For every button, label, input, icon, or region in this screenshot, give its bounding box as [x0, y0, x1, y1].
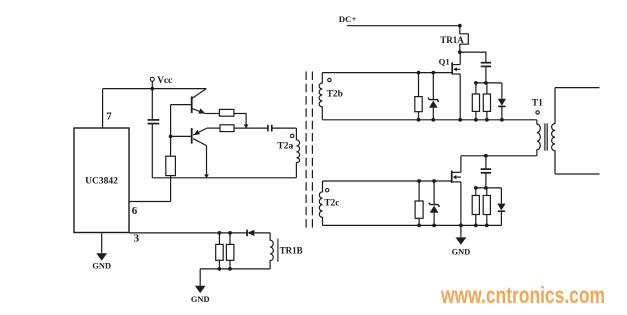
pin 7 label — [106, 111, 112, 123]
wire Vcc horizontal rail — [103, 88, 207, 90]
junction R11 bottom — [228, 267, 232, 271]
wire T2b top to Q1 gate — [322, 72, 451, 74]
resistor R7 gate resistor — [415, 181, 423, 225]
capacitor C4 snubber — [481, 156, 491, 188]
transformer T1 primary winding — [537, 120, 540, 156]
wire R2 to junction — [234, 114, 246, 125]
svg-text:T2b: T2b — [327, 89, 343, 99]
node T2a phase dot — [291, 134, 294, 137]
ground below UC3842 — [92, 233, 111, 270]
wire base feed vertical lower — [170, 176, 172, 202]
junction snubber2 rail left — [474, 186, 478, 190]
wire DC+ horizontal — [347, 25, 460, 27]
svg-text:GND: GND — [191, 295, 210, 304]
junction arrow at lower rail — [204, 174, 209, 178]
transistor Q1 MOSFET — [452, 62, 460, 74]
resistor R9 snubber — [483, 188, 490, 226]
wire source bus upper — [322, 119, 537, 121]
node T1 phase dot — [536, 111, 539, 114]
junction arrow at R2/R3 node — [244, 124, 249, 128]
junction T2b gate wire at D2 — [431, 71, 435, 75]
transformer T1 secondary winding — [552, 88, 555, 174]
transformer TR1B current sense secondary — [270, 233, 303, 269]
wire Q4 drain to T1 bottom — [461, 155, 537, 157]
svg-text:GND: GND — [92, 262, 111, 271]
capacitor C3 snubber — [481, 63, 491, 83]
junction lower bus snubber R9 — [485, 224, 489, 228]
wire Q4 source — [460, 182, 462, 226]
wire Q2 emitter to R2 — [205, 113, 219, 115]
junction Q1 drain node — [458, 50, 462, 54]
junction Vcc node — [150, 87, 154, 91]
transformer T2 core dashed line left — [305, 72, 307, 229]
wire T2c top to Q4 gate — [323, 180, 452, 182]
junction T2c gate wire at R7 — [417, 179, 421, 183]
wire Q3 collector drop — [206, 146, 208, 175]
zener diode D2 gate clamp — [428, 73, 439, 120]
junction bus D2 — [431, 118, 435, 122]
diode D5 snubber — [497, 188, 505, 226]
diode D1 sense rectifier — [247, 230, 270, 237]
junction snubber rail left — [474, 81, 478, 85]
svg-text:TR1B: TR1B — [280, 245, 303, 255]
transformer T2 core dashed line right — [311, 72, 313, 229]
svg-text:DC+: DC+ — [339, 14, 357, 24]
wire snubber top — [460, 52, 486, 62]
svg-text:www.cntronics.com: www.cntronics.com — [440, 282, 605, 308]
junction T2c gate wire at D4 — [432, 179, 436, 183]
junction PNP base node — [169, 135, 173, 139]
resistor R3 lower base resistor — [220, 125, 234, 132]
resistor R2 upper base resistor — [219, 109, 234, 116]
capacitor C1 Vcc decoupling — [148, 89, 160, 178]
resistor R10 sense — [216, 233, 224, 269]
junction bus R4 — [417, 118, 421, 122]
label T1 — [532, 98, 543, 108]
junction bus snubber D3 — [500, 118, 504, 122]
wire base feed vertical upper — [170, 105, 172, 157]
transistor Q4 MOSFET — [452, 171, 461, 183]
wire snubber rail — [476, 82, 502, 84]
svg-text:Q1: Q1 — [439, 57, 450, 67]
node T2c phase dot — [326, 189, 329, 192]
junction Q4 drain cap tap — [484, 154, 488, 158]
resistor R4 gate resistor — [415, 73, 422, 120]
svg-text:T2a: T2a — [277, 141, 293, 151]
node T2b phase dot — [328, 78, 331, 81]
svg-text:Vcc: Vcc — [157, 76, 172, 86]
wire snubber2 rail — [476, 187, 502, 189]
label Q1 — [439, 57, 450, 67]
wire Q1 drain — [459, 52, 461, 65]
capacitor C2 coupling — [268, 125, 297, 132]
ground at TR1B return — [191, 269, 210, 304]
junction R10 bottom — [218, 267, 222, 271]
svg-text:7: 7 — [106, 111, 112, 123]
junction snubber2 rail cap — [484, 186, 488, 190]
wire Q4 drain — [460, 156, 462, 173]
wire pin 6 output — [129, 201, 171, 203]
junction bus Q1 source — [458, 118, 462, 122]
transformer TR1A current sense primary — [440, 26, 468, 52]
label T2a — [277, 141, 293, 151]
resistor R6 snubber — [483, 83, 490, 120]
wire lower rail to T2a bottom — [152, 177, 296, 179]
transformer T2a primary winding — [296, 128, 299, 178]
resistor R5 snubber — [472, 83, 479, 120]
node Vcc terminal — [150, 76, 172, 89]
label T2c — [324, 199, 339, 209]
svg-text:6: 6 — [132, 205, 138, 217]
wire pin 7 vertical — [102, 89, 104, 129]
resistor R8 snubber — [472, 188, 479, 226]
node DC+ supply — [339, 14, 357, 24]
svg-text:T1: T1 — [532, 98, 543, 108]
diode D3 snubber — [498, 83, 506, 120]
junction R10 top — [218, 231, 222, 235]
junction bus snubber R6 — [485, 118, 489, 122]
pin 6 label — [132, 205, 138, 217]
transformer T1 core — [545, 123, 547, 150]
junction bus snubber R5 — [474, 118, 478, 122]
junction T2b gate wire at R4 — [417, 71, 421, 75]
wire TR1B bottom return — [200, 268, 270, 270]
resistor R1 base pulldown — [166, 156, 176, 175]
junction R11 top — [228, 231, 232, 235]
wire R3 to coupling capacitor — [234, 127, 268, 129]
svg-text:TR1A: TR1A — [440, 35, 464, 45]
wire Q3 emitter to R3 — [207, 127, 220, 129]
wire source bus lower — [323, 224, 502, 226]
zener diode D4 gate clamp — [429, 181, 440, 225]
wire secondary top stub — [555, 87, 600, 89]
junction lower bus R7 — [417, 224, 421, 228]
transformer T2c secondary winding — [319, 181, 322, 225]
junction snubber rail cap — [484, 81, 488, 85]
pin 3 label — [134, 233, 140, 245]
svg-text:3: 3 — [134, 233, 140, 245]
ground at Q4 source — [452, 225, 471, 256]
svg-text:GND: GND — [452, 248, 471, 257]
wire pin 3 horizontal — [129, 232, 247, 234]
wire secondary bottom stub — [555, 173, 600, 175]
op-amp U1 UC3842 controller box — [74, 128, 129, 233]
transistor Q2 NPN upper driver — [171, 89, 207, 114]
junction lower bus snubber R8 — [474, 224, 478, 228]
transformer T2b secondary winding — [319, 73, 322, 120]
label T2b — [327, 89, 343, 99]
junction DC+ corner — [458, 24, 462, 28]
junction lower bus Q4 source — [459, 224, 463, 228]
wire Q1 source — [459, 74, 461, 120]
transistor Q3 PNP lower driver — [171, 128, 207, 146]
resistor R11 sense — [226, 233, 234, 269]
svg-text:UC3842: UC3842 — [85, 177, 118, 187]
junction lower bus D4 — [432, 224, 436, 228]
svg-text:T2c: T2c — [324, 199, 339, 209]
